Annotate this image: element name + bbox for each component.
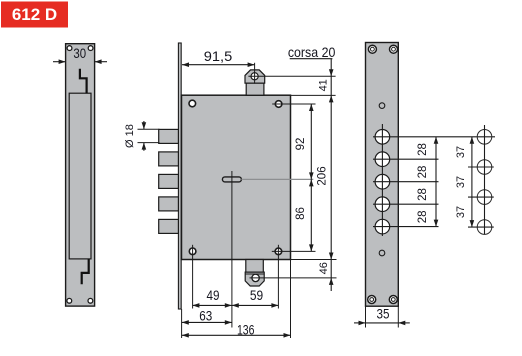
body hole bottom-right horizontal line: [272, 250, 316, 252]
svg-text:41: 41: [318, 79, 330, 91]
diameter 18 dimension line with arrows: [142, 121, 147, 151]
defender circle 3: [477, 190, 492, 205]
svg-text:28: 28: [417, 188, 429, 201]
svg-text:59: 59: [250, 287, 263, 303]
bottom protrusion horizontal line extended right: [250, 277, 337, 279]
body hole bottom-left: [189, 248, 196, 255]
svg-text:136: 136: [237, 322, 255, 338]
svg-text:30: 30: [73, 45, 86, 61]
right plate hole 3: [375, 174, 390, 189]
hole 4 horizontal line: [373, 203, 439, 205]
svg-text:49: 49: [207, 287, 220, 303]
svg-text:63: 63: [199, 308, 212, 324]
bolt 4: [159, 197, 179, 211]
deadbolt stem: [246, 83, 264, 95]
dimension 35 left arrow: [354, 321, 366, 326]
dimension 35 right arrow: [398, 321, 410, 326]
bolt 5: [159, 219, 179, 233]
body hole top-right: [275, 101, 282, 108]
dimension line x331 for 41 206 46: [329, 76, 334, 291]
right plate screw ring bottom-left: [368, 296, 376, 304]
right plate hole 5: [375, 219, 390, 234]
svg-text:92: 92: [295, 138, 307, 151]
left plate inner case rectangle: [69, 93, 91, 259]
defender circle 2 horizontal line: [468, 166, 494, 168]
dimension 30 left arrow: [53, 59, 66, 64]
dimension line x311 for 92 and 86: [309, 104, 314, 251]
defender circle 4 horizontal line: [468, 226, 494, 228]
hole 1 horizontal line to circle 1: [373, 136, 495, 138]
faceplate bottom extension line: [181, 309, 183, 338]
slot vertical center line: [231, 171, 233, 328]
bottom protrusion flange line: [245, 273, 264, 275]
svg-text:37: 37: [455, 176, 467, 188]
right plate screw ring bottom-right: [389, 296, 397, 304]
right plate screw ring top-right: [390, 45, 398, 53]
right plate 35 left extension line: [365, 306, 367, 327]
body hole top-left: [189, 100, 196, 107]
hole 2 horizontal line: [373, 158, 439, 160]
defender circles vertical line: [484, 125, 486, 235]
dimension 35 connecting line: [366, 322, 399, 324]
diameter 18 bottom extension line: [138, 142, 160, 144]
svg-text:28: 28: [417, 143, 429, 156]
right plate hole 2: [375, 152, 390, 167]
hole 3 horizontal line: [373, 181, 439, 183]
main lock body: [182, 95, 291, 259]
defender circle 2: [477, 160, 492, 175]
defender circle 3 horizontal line: [468, 196, 494, 198]
body top extension line right: [291, 94, 336, 96]
svg-text:28: 28: [417, 166, 429, 179]
svg-text:Ø 18: Ø 18: [124, 124, 136, 148]
svg-text:37: 37: [455, 206, 467, 218]
dimension line 28 chain: [434, 137, 439, 227]
right plate 35 right extension line: [397, 306, 399, 327]
bottom protrusion stem: [246, 260, 263, 273]
left plate screw hole top-left: [67, 46, 72, 51]
svg-text:35: 35: [377, 306, 390, 322]
deadbolt vertical center line: [254, 63, 256, 84]
key slot: [222, 177, 241, 182]
hole 5 horizontal line: [373, 226, 439, 228]
dimension 136 line: [182, 333, 291, 338]
dimension 30 right arrow: [95, 59, 107, 64]
svg-text:206: 206: [317, 166, 329, 185]
dimension 63 line: [182, 320, 232, 325]
svg-text:46: 46: [318, 262, 330, 274]
dimension line 37 chain: [470, 137, 475, 227]
right plate small circle top: [379, 103, 385, 109]
defender circle 4: [477, 220, 492, 235]
svg-text:28: 28: [417, 211, 429, 224]
dimension 91,5 line: [182, 62, 255, 67]
left plate bottom step line: [82, 259, 89, 284]
body hole bottom-right vertical line: [277, 245, 279, 309]
deadbolt circle: [251, 73, 258, 80]
svg-text:91,5: 91,5: [204, 48, 233, 64]
deadbolt upper block: [245, 70, 265, 83]
slot gray horizontal line: [241, 178, 313, 180]
body hole bottom-right: [275, 248, 282, 255]
body bottom extension line right: [291, 259, 337, 261]
faceplate strip of main view: [178, 43, 181, 309]
corsa 20 underline: [290, 58, 333, 60]
right plate screw ring top-left: [368, 45, 376, 53]
bolt 1: [159, 129, 179, 143]
left plate outer body: [66, 44, 95, 306]
left plate screw hole top-right: [88, 46, 93, 51]
left plate screw hole bottom-left: [67, 298, 72, 303]
bottom protrusion block: [245, 272, 264, 286]
red model label 612 D: [1, 2, 68, 28]
bolt 2: [159, 152, 179, 166]
right plate body: [366, 43, 399, 307]
svg-text:612 D: 612 D: [12, 5, 57, 24]
right plate hole 1: [375, 130, 390, 145]
right plate small circle bottom: [379, 250, 385, 256]
body hole top-right horizontal line: [272, 103, 315, 105]
svg-text:86: 86: [295, 207, 307, 220]
deadbolt horizontal center line extended right: [248, 75, 335, 77]
body hole bottom-left vertical line: [192, 245, 194, 309]
dimension 49 59 line: [192, 303, 278, 308]
bottom protrusion circle: [252, 274, 259, 281]
body right bottom extension line: [290, 260, 292, 339]
diameter 18 top extension line: [138, 128, 160, 130]
defender circle 1: [477, 130, 492, 145]
left plate top step line: [80, 69, 87, 94]
svg-text:37: 37: [455, 146, 467, 158]
bolt 3: [159, 174, 179, 188]
svg-text:corsa 20: corsa 20: [288, 44, 336, 60]
corsa 20 down arrow: [329, 59, 334, 76]
right plate holes vertical center line: [381, 124, 383, 236]
left plate screw hole bottom-right: [88, 298, 93, 303]
right plate hole 4: [375, 197, 390, 212]
